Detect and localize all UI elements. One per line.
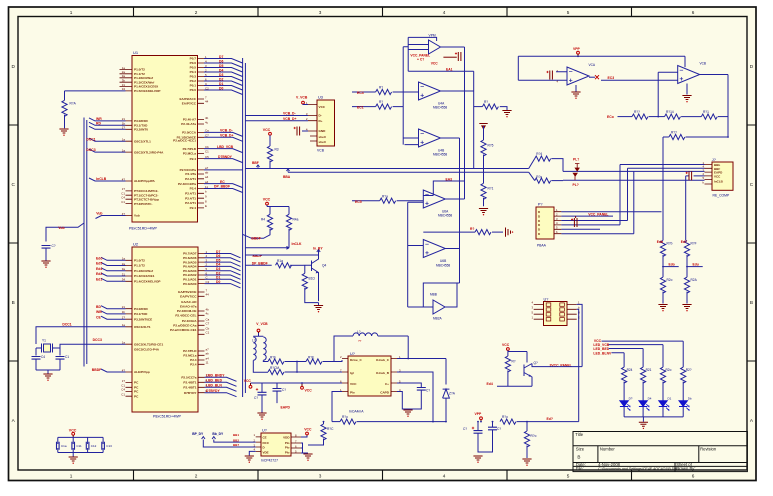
svg-text:R??: R?? — [634, 110, 640, 114]
svg-text:D4: D4 — [648, 397, 652, 401]
VPP power on rail — [475, 412, 483, 423]
svg-text:C4: C4 — [41, 355, 45, 359]
svg-text:Ed?: Ed? — [547, 417, 553, 421]
U1 left pin stubs — [120, 70, 133, 216]
svg-text:WB: WB — [96, 310, 102, 314]
resistor R30 on rail — [500, 415, 579, 424]
svg-text:P0.5: P0.5 — [190, 66, 197, 70]
capacitor C10 — [57, 442, 67, 450]
svg-text:BP_DY: BP_DY — [192, 432, 204, 436]
maroon cap at J1 — [686, 171, 692, 180]
svg-text:EA3: EA3 — [446, 177, 453, 181]
resistor R23 on rail — [332, 415, 446, 424]
svg-text:31: 31 — [122, 83, 126, 87]
svg-text:BBDF: BBDF — [92, 368, 101, 372]
LED resistor RL2 — [641, 367, 652, 401]
feedback wire R41 — [408, 67, 474, 168]
VCC power left of row3 — [244, 379, 252, 388]
svg-text:11: 11 — [206, 361, 209, 365]
LED resistor RL1 — [622, 367, 633, 401]
resistor chain col2 upper — [684, 240, 696, 277]
svg-text:5: 5 — [567, 10, 570, 15]
opto block U8 (MCP) — [253, 429, 301, 463]
svg-text:InCP42727: InCP42727 — [261, 458, 278, 462]
svg-text:VCC: VCC — [304, 428, 312, 432]
svg-text:PT.2/CTC7-B/Vpp: PT.2/CTC7-B/Vpp — [134, 197, 159, 201]
svg-text:ALE/P/Vpp/PA: ALE/P/Vpp/PA — [134, 179, 156, 183]
svg-text:InCLB: InCLB — [96, 177, 107, 181]
resistor R24 vertical to opto — [308, 421, 334, 445]
svg-text:DCC3: DCC3 — [86, 148, 95, 152]
microcontroller U2 body — [132, 241, 198, 418]
svg-text:R?5: R?5 — [488, 144, 494, 148]
svg-text:InCLK: InCLK — [292, 242, 303, 246]
VPP power tap — [573, 47, 581, 57]
resistor chain col1 lower — [660, 277, 672, 303]
svg-text:U?: U? — [262, 429, 267, 433]
svg-text:Vub: Vub — [134, 214, 140, 218]
maroon cap at U11A input — [546, 69, 558, 83]
svg-text:C4: C4 — [121, 388, 125, 392]
svg-text:R?1: R?1 — [703, 110, 709, 114]
resistor R43 second row — [663, 131, 729, 140]
svg-text:R3: R3 — [275, 148, 279, 152]
LED D4 — [679, 397, 692, 411]
svg-text:P0.4: P0.4 — [190, 70, 197, 74]
ground below C30 — [473, 456, 482, 463]
svg-text:P2.0/CCA: P2.0/CCA — [182, 131, 197, 135]
svg-text:P2.4: P2.4 — [190, 187, 197, 191]
svg-text:R21: R21 — [646, 368, 652, 372]
svg-text:InCLB: InCLB — [714, 179, 724, 183]
DIP switch U10 — [531, 297, 580, 325]
svg-text:Ed1: Ed1 — [96, 277, 102, 281]
svg-text:Size: Size — [576, 447, 585, 452]
op-amp U11B — [678, 62, 706, 84]
border row labels — [12, 64, 754, 423]
capacitor C2 on Vub — [42, 244, 56, 261]
svg-text:PT.3/PCB7C-: PT.3/PCB7C- — [134, 202, 153, 206]
wire op-amp E output — [445, 248, 459, 250]
cap C21 with EAPD — [273, 383, 291, 409]
border row tick marks — [9, 125, 757, 361]
svg-text:EC5: EC5 — [355, 200, 362, 204]
ground below crystal — [43, 374, 52, 381]
U2 left net wires with bus entries — [101, 257, 126, 372]
svg-text:P2.40-A7: P2.40-A7 — [183, 118, 196, 122]
wire op-amp A output — [441, 47, 465, 199]
svg-text:RD: RD — [96, 121, 101, 125]
svg-text:Vub: Vub — [58, 226, 64, 230]
svg-text:P3.2/INT0: P3.2/INT0 — [134, 128, 148, 132]
maroon cap near op-amp A — [443, 52, 461, 61]
svg-text:D0: D0 — [219, 86, 223, 90]
svg-text:CE: CE — [263, 436, 267, 440]
P2 header block — [536, 203, 561, 248]
svg-text:Ed?: Ed? — [681, 240, 687, 244]
U2 right lower net wires — [205, 377, 237, 396]
ground col2 — [682, 305, 691, 312]
U2 right lower red labels — [206, 374, 225, 393]
svg-text:PC: PC — [134, 381, 139, 385]
U2 left pin numbers — [121, 257, 125, 397]
svg-text:ab: ab — [206, 352, 210, 356]
op-amp U11A — [567, 63, 596, 85]
zener VD1 — [397, 358, 456, 422]
svg-text:MBC4558: MBC4558 — [433, 106, 447, 110]
svg-text:VCC_PANEL: VCC_PANEL — [588, 213, 608, 217]
P2 wires right — [561, 165, 661, 234]
svg-text:D7BYDY: D7BYDY — [206, 389, 220, 393]
svg-text:BB1: BB1 — [233, 433, 239, 437]
LED feed wires — [602, 341, 684, 367]
svg-text:R?b: R?b — [270, 355, 276, 359]
LED net labels — [593, 339, 612, 355]
U1 right pin stubs — [198, 59, 205, 208]
op-amp U6B — [423, 240, 450, 268]
svg-text:InCA4mA: InCA4mA — [349, 410, 364, 414]
svg-text:LED_BED: LED_BED — [593, 347, 609, 351]
svg-text:CAPD: CAPD — [380, 391, 390, 395]
svg-text:P8xC51RD+4WP: P8xC51RD+4WP — [153, 414, 181, 418]
svg-text:C13: C13 — [106, 444, 112, 448]
resistor R21 row1b — [306, 355, 342, 364]
svg-text:Number: Number — [600, 447, 615, 452]
VCC pullup pair: VCC symbol — [263, 198, 289, 215]
small block U3 — [306, 95, 335, 152]
svg-text:EC1: EC1 — [357, 106, 364, 110]
col2 tap stub Edu — [686, 262, 703, 267]
svg-text:+ C?: + C? — [417, 58, 424, 62]
svg-text:P3.1/TXD: P3.1/TXD — [134, 312, 148, 316]
resistor R32 — [505, 356, 516, 386]
svg-text:P2.a/CCM/CE-CE1: P2.a/CCM/CE-CE1 — [170, 328, 197, 332]
resistor chain col2 lower — [684, 277, 697, 303]
svg-text:D2: D2 — [219, 77, 223, 81]
svg-text:44: 44 — [205, 100, 209, 104]
MCP pin4 ground — [245, 451, 256, 463]
border column tick marks — [134, 7, 632, 480]
svg-text:P?: P? — [538, 203, 543, 207]
svg-text:E: E — [205, 204, 207, 208]
VCC node above R32 — [502, 343, 527, 363]
resistor R22 row2 — [268, 366, 342, 375]
svg-text:MBC4558: MBC4558 — [433, 153, 447, 157]
svg-text:VCC: VCC — [431, 61, 439, 65]
svg-text:P2.4: P2.4 — [190, 206, 197, 210]
svg-text:P2.MCLa: P2.MCLa — [183, 354, 196, 358]
svg-text:EC: EC — [220, 180, 225, 184]
port In_BY arrow — [313, 247, 323, 256]
svg-text:P2.4/DCC-CEL: P2.4/DCC-CEL — [175, 314, 196, 318]
maroon side ground symbol — [506, 228, 514, 237]
svg-text:a4: a4 — [205, 175, 209, 179]
DIP right wires down — [577, 304, 582, 421]
svg-text:D5: D5 — [219, 64, 223, 68]
svg-text:Ed2: Ed2 — [96, 272, 102, 276]
svg-text:BBF: BBF — [252, 161, 259, 165]
svg-text:P2.4/T1: P2.4/T1 — [185, 177, 196, 181]
svg-text:C?: C? — [497, 427, 501, 431]
svg-text:Revision: Revision — [700, 447, 717, 452]
svg-text:PL?: PL? — [573, 157, 579, 161]
LED D1 — [620, 397, 633, 411]
svg-text:VDE: VDE — [263, 450, 269, 454]
svg-text:D3: D3 — [219, 73, 223, 77]
svg-text:P1.5/CEX4/ELVOP: P1.5/CEX4/ELVOP — [134, 89, 160, 93]
svg-text:C4: C4 — [121, 196, 125, 200]
svg-text:R2?: R2? — [686, 368, 692, 372]
svg-text:R4: R4 — [261, 218, 265, 222]
svg-text:RE_COMP: RE_COMP — [713, 194, 731, 198]
svg-text:C?: C? — [463, 427, 467, 431]
svg-text:R?o: R?o — [536, 175, 542, 179]
resistor R10 — [276, 259, 304, 268]
no-ERC cross on output — [589, 75, 599, 79]
svg-text:Z?A: Z?A — [449, 392, 456, 396]
svg-text:R?: R? — [379, 86, 383, 90]
svg-text:MBB: MBB — [430, 293, 437, 297]
svg-text:44: 44 — [206, 293, 210, 297]
svg-text:O-hub_B: O-hub_B — [376, 371, 390, 375]
ground below LEDs — [639, 422, 648, 429]
svg-text:Ed4: Ed4 — [96, 267, 102, 271]
svg-text:P2.4/T1: P2.4/T1 — [185, 196, 196, 200]
crystal ground rail — [36, 370, 60, 374]
U1 left red net labels — [86, 117, 106, 216]
svg-text:Plo: Plo — [285, 450, 290, 454]
svg-text:PBAA: PBAA — [537, 244, 547, 248]
svg-text:4b: 4b — [205, 116, 209, 120]
svg-text:P2.7/PLD: P2.7/PLD — [183, 147, 197, 151]
main vertical data bus D0-D7 — [243, 58, 246, 397]
svg-text:shell: shell — [319, 135, 326, 139]
svg-text:Edu: Edu — [693, 262, 699, 266]
svg-text:P2.4: P2.4 — [190, 157, 197, 161]
svg-text:Plo: Plo — [285, 446, 290, 450]
resistor R20 row1 — [268, 355, 306, 364]
svg-text:L?: L? — [252, 339, 256, 343]
svg-text:Q?: Q? — [534, 361, 538, 365]
resistor R13 to ground — [474, 100, 507, 110]
svg-text:1: 1 — [70, 10, 73, 15]
input rail op-amps B C — [393, 47, 419, 145]
connector J1 — [702, 158, 733, 198]
port REF arrow on wire A — [252, 161, 260, 168]
svg-text:R?1: R?1 — [488, 187, 494, 191]
svg-text:V_VCB: V_VCB — [296, 96, 308, 100]
svg-text:P0.0/AD0: P0.0/AD0 — [183, 282, 197, 286]
transistor Q4 — [304, 255, 327, 301]
svg-text:EA/PV7/CC: EA/PV7/CC — [180, 295, 197, 299]
svg-text:VCC: VCC — [263, 198, 271, 202]
resistor R12 input — [352, 100, 392, 109]
resistor R35 feed — [529, 172, 563, 183]
svg-text:P2.4/CC2/Pa: P2.4/CC2/Pa — [178, 182, 196, 186]
svg-text:P3.2/INT0CE: P3.2/INT0CE — [134, 317, 152, 321]
svg-text:V_VCB: V_VCB — [256, 322, 268, 326]
svg-text:Ed4: Ed4 — [487, 382, 493, 386]
svg-text:BB7: BB7 — [233, 443, 239, 447]
svg-text:P3.0/RXD: P3.0/RXD — [134, 119, 149, 123]
svg-text:R?b: R?b — [667, 241, 673, 245]
svg-text:R?E: R?E — [308, 355, 314, 359]
svg-text:D4: D4 — [219, 68, 223, 72]
svg-text:LBD_BNDY: LBD_BNDY — [206, 374, 225, 378]
svg-text:PC: PC — [134, 390, 139, 394]
svg-text:BB2: BB2 — [233, 438, 239, 442]
resistor R15 bias lower — [481, 169, 494, 207]
col1 tap stub Edo — [662, 262, 679, 267]
svg-text:5: 5 — [567, 474, 570, 479]
svg-text:C1: C1 — [121, 200, 125, 204]
svg-text:2: 2 — [195, 474, 198, 479]
resistor R34 feed — [529, 152, 563, 171]
U2 right pin stubs — [198, 254, 205, 393]
svg-text:Plo: Plo — [285, 441, 290, 445]
svg-text:P0.2: P0.2 — [190, 79, 197, 83]
crystal circuit: wire from U2 OSC1 — [36, 327, 126, 348]
svg-text:D7BNDY: D7BNDY — [218, 155, 233, 159]
resistor R5 — [286, 214, 298, 248]
svg-text:3: 3 — [319, 10, 322, 15]
svg-text:??: ?? — [358, 339, 362, 343]
resistor R16 input of U6A — [352, 194, 423, 203]
port BBA arrow on wire B — [283, 169, 291, 179]
svg-text:P8xC51RD+4WP: P8xC51RD+4WP — [129, 227, 157, 231]
svg-text:Ed5: Ed5 — [96, 262, 102, 266]
svg-text:VPP: VPP — [475, 412, 483, 416]
svg-text:U3: U3 — [318, 95, 323, 99]
svg-text:P1.2/ECI/Wof: P1.2/ECI/Wof — [134, 269, 154, 273]
op-amp U5A small buffer top — [408, 33, 440, 71]
U1 D7-D0 red labels — [219, 55, 223, 91]
capacitor C5 — [56, 348, 70, 370]
VCC tap near U9 — [301, 382, 313, 392]
svg-text:C1: C1 — [205, 150, 209, 154]
svg-text:VCC: VCC — [263, 128, 271, 132]
svg-text:1?: 1? — [122, 379, 126, 383]
svg-text:O-hub_C: O-hub_C — [376, 358, 390, 362]
svg-text:LBD_BED: LBD_BED — [206, 379, 223, 383]
svg-text:R?o: R?o — [502, 415, 508, 419]
svg-text:R?o: R?o — [342, 415, 348, 419]
power arrow VEE bias — [479, 124, 487, 130]
svg-text:R?F: R?F — [691, 241, 697, 245]
ports BP_DY / Bb_DY — [192, 432, 256, 447]
U2 right bus entries D0-D7 — [205, 254, 241, 288]
capacitor C12 — [86, 442, 96, 450]
ground below C20 — [257, 413, 266, 420]
VCC decoupling caps bottom-left: VCC symbol — [69, 428, 77, 437]
DC converter block U9 — [340, 352, 401, 414]
svg-text:D0: D0 — [216, 280, 220, 284]
svg-text:DCC1: DCC1 — [62, 323, 71, 327]
svg-text:R?: R? — [484, 100, 488, 104]
op-amp U4A — [419, 82, 448, 110]
svg-text:1: 1 — [70, 474, 73, 479]
LED resistor RL3 — [660, 367, 671, 401]
svg-text:U?: U? — [350, 352, 355, 356]
svg-text:MB2A: MB2A — [433, 317, 443, 321]
svg-text:B1Ω: B1Ω — [309, 277, 316, 281]
svg-text:BBA: BBA — [283, 175, 291, 179]
svg-text:R?: R? — [379, 100, 383, 104]
svg-text:VCC: VCC — [319, 105, 326, 109]
wire U9 pin2 right — [397, 372, 433, 422]
U2 left red labels — [92, 256, 103, 372]
svg-text:P2.MCLa: P2.MCLa — [183, 152, 196, 156]
svg-text:P1.4/CEX1/CE0X: P1.4/CEX1/CE0X — [134, 85, 159, 89]
wire DP_BBDF to resistor R10 — [245, 264, 272, 266]
wire U9 pin3 right with cap C22 — [397, 383, 430, 409]
svg-text:MBC4558: MBC4558 — [438, 214, 452, 218]
buffer loop wires — [423, 283, 459, 307]
U11A input wires — [518, 56, 685, 80]
MCP right wires to ground — [301, 443, 313, 461]
node Vub wire to cap — [46, 223, 84, 242]
svg-text:4: 4 — [443, 474, 446, 479]
resistor R1 top-left — [62, 91, 77, 128]
LED D3 — [659, 397, 672, 411]
U1 right bus entries D0-D7 — [204, 59, 243, 95]
resistor R14 bias upper — [481, 126, 494, 169]
wires L2 to resistors — [253, 360, 268, 372]
svg-text:C?: C? — [254, 396, 258, 400]
svg-text:P0.6: P0.6 — [190, 61, 197, 65]
wire EC3 to U11B — [601, 72, 678, 116]
svg-text:U2: U2 — [133, 241, 139, 246]
svg-text:R2o: R2o — [666, 368, 672, 372]
svg-text:P2.a/DDCE-CAa: P2.a/DDCE-CAa — [173, 324, 196, 328]
svg-text:2: 2 — [195, 10, 198, 15]
capacitor C4 — [32, 348, 46, 370]
svg-text:R?14: R?14 — [666, 110, 674, 114]
svg-text:D1: D1 — [668, 397, 672, 401]
svg-text:R?: R? — [512, 360, 516, 364]
ground below R15 — [479, 209, 488, 216]
svg-text:D7: D7 — [219, 55, 223, 59]
svg-text:C:\Documents and Settings\CE4E: C:\Documents and Settings\CE4E 4OC4O1\B.… — [598, 467, 678, 471]
svg-text:C1: C1 — [206, 331, 210, 335]
svg-text:R??: R?? — [671, 131, 677, 135]
svg-text:Igl: Igl — [350, 371, 354, 375]
svg-text:R?C: R?C — [327, 427, 334, 431]
LED cathode rail — [624, 407, 683, 422]
svg-text:P2.4: P2.4 — [190, 363, 197, 367]
U2 inner pin names — [134, 259, 163, 399]
svg-text:C?: C? — [426, 389, 430, 393]
svg-text:D6: D6 — [219, 59, 223, 63]
svg-text:3a: 3a — [122, 74, 126, 78]
svg-text:Bb_DY: Bb_DY — [212, 432, 224, 436]
border column labels — [70, 10, 695, 479]
J1 wires — [563, 165, 705, 241]
svg-text:6: 6 — [692, 10, 695, 15]
svg-text:DP_BBDF: DP_BBDF — [214, 185, 230, 189]
svg-text:File:: File: — [576, 466, 584, 471]
svg-text:VCC: VCC — [69, 428, 77, 432]
svg-text:VCC: VCC — [350, 382, 357, 386]
svg-text:R24: R24 — [627, 368, 633, 372]
svg-text:Y1: Y1 — [42, 339, 46, 343]
wire A long feed to right resistors — [245, 169, 529, 173]
svg-text:ab: ab — [205, 170, 209, 174]
wire op-amp C output — [441, 138, 460, 283]
junction vertical row1-row2 — [296, 362, 298, 373]
svg-text:VCC: VCC — [714, 174, 721, 178]
svg-text:P1.2/ECI/Wof: P1.2/ECI/Wof — [134, 76, 154, 80]
